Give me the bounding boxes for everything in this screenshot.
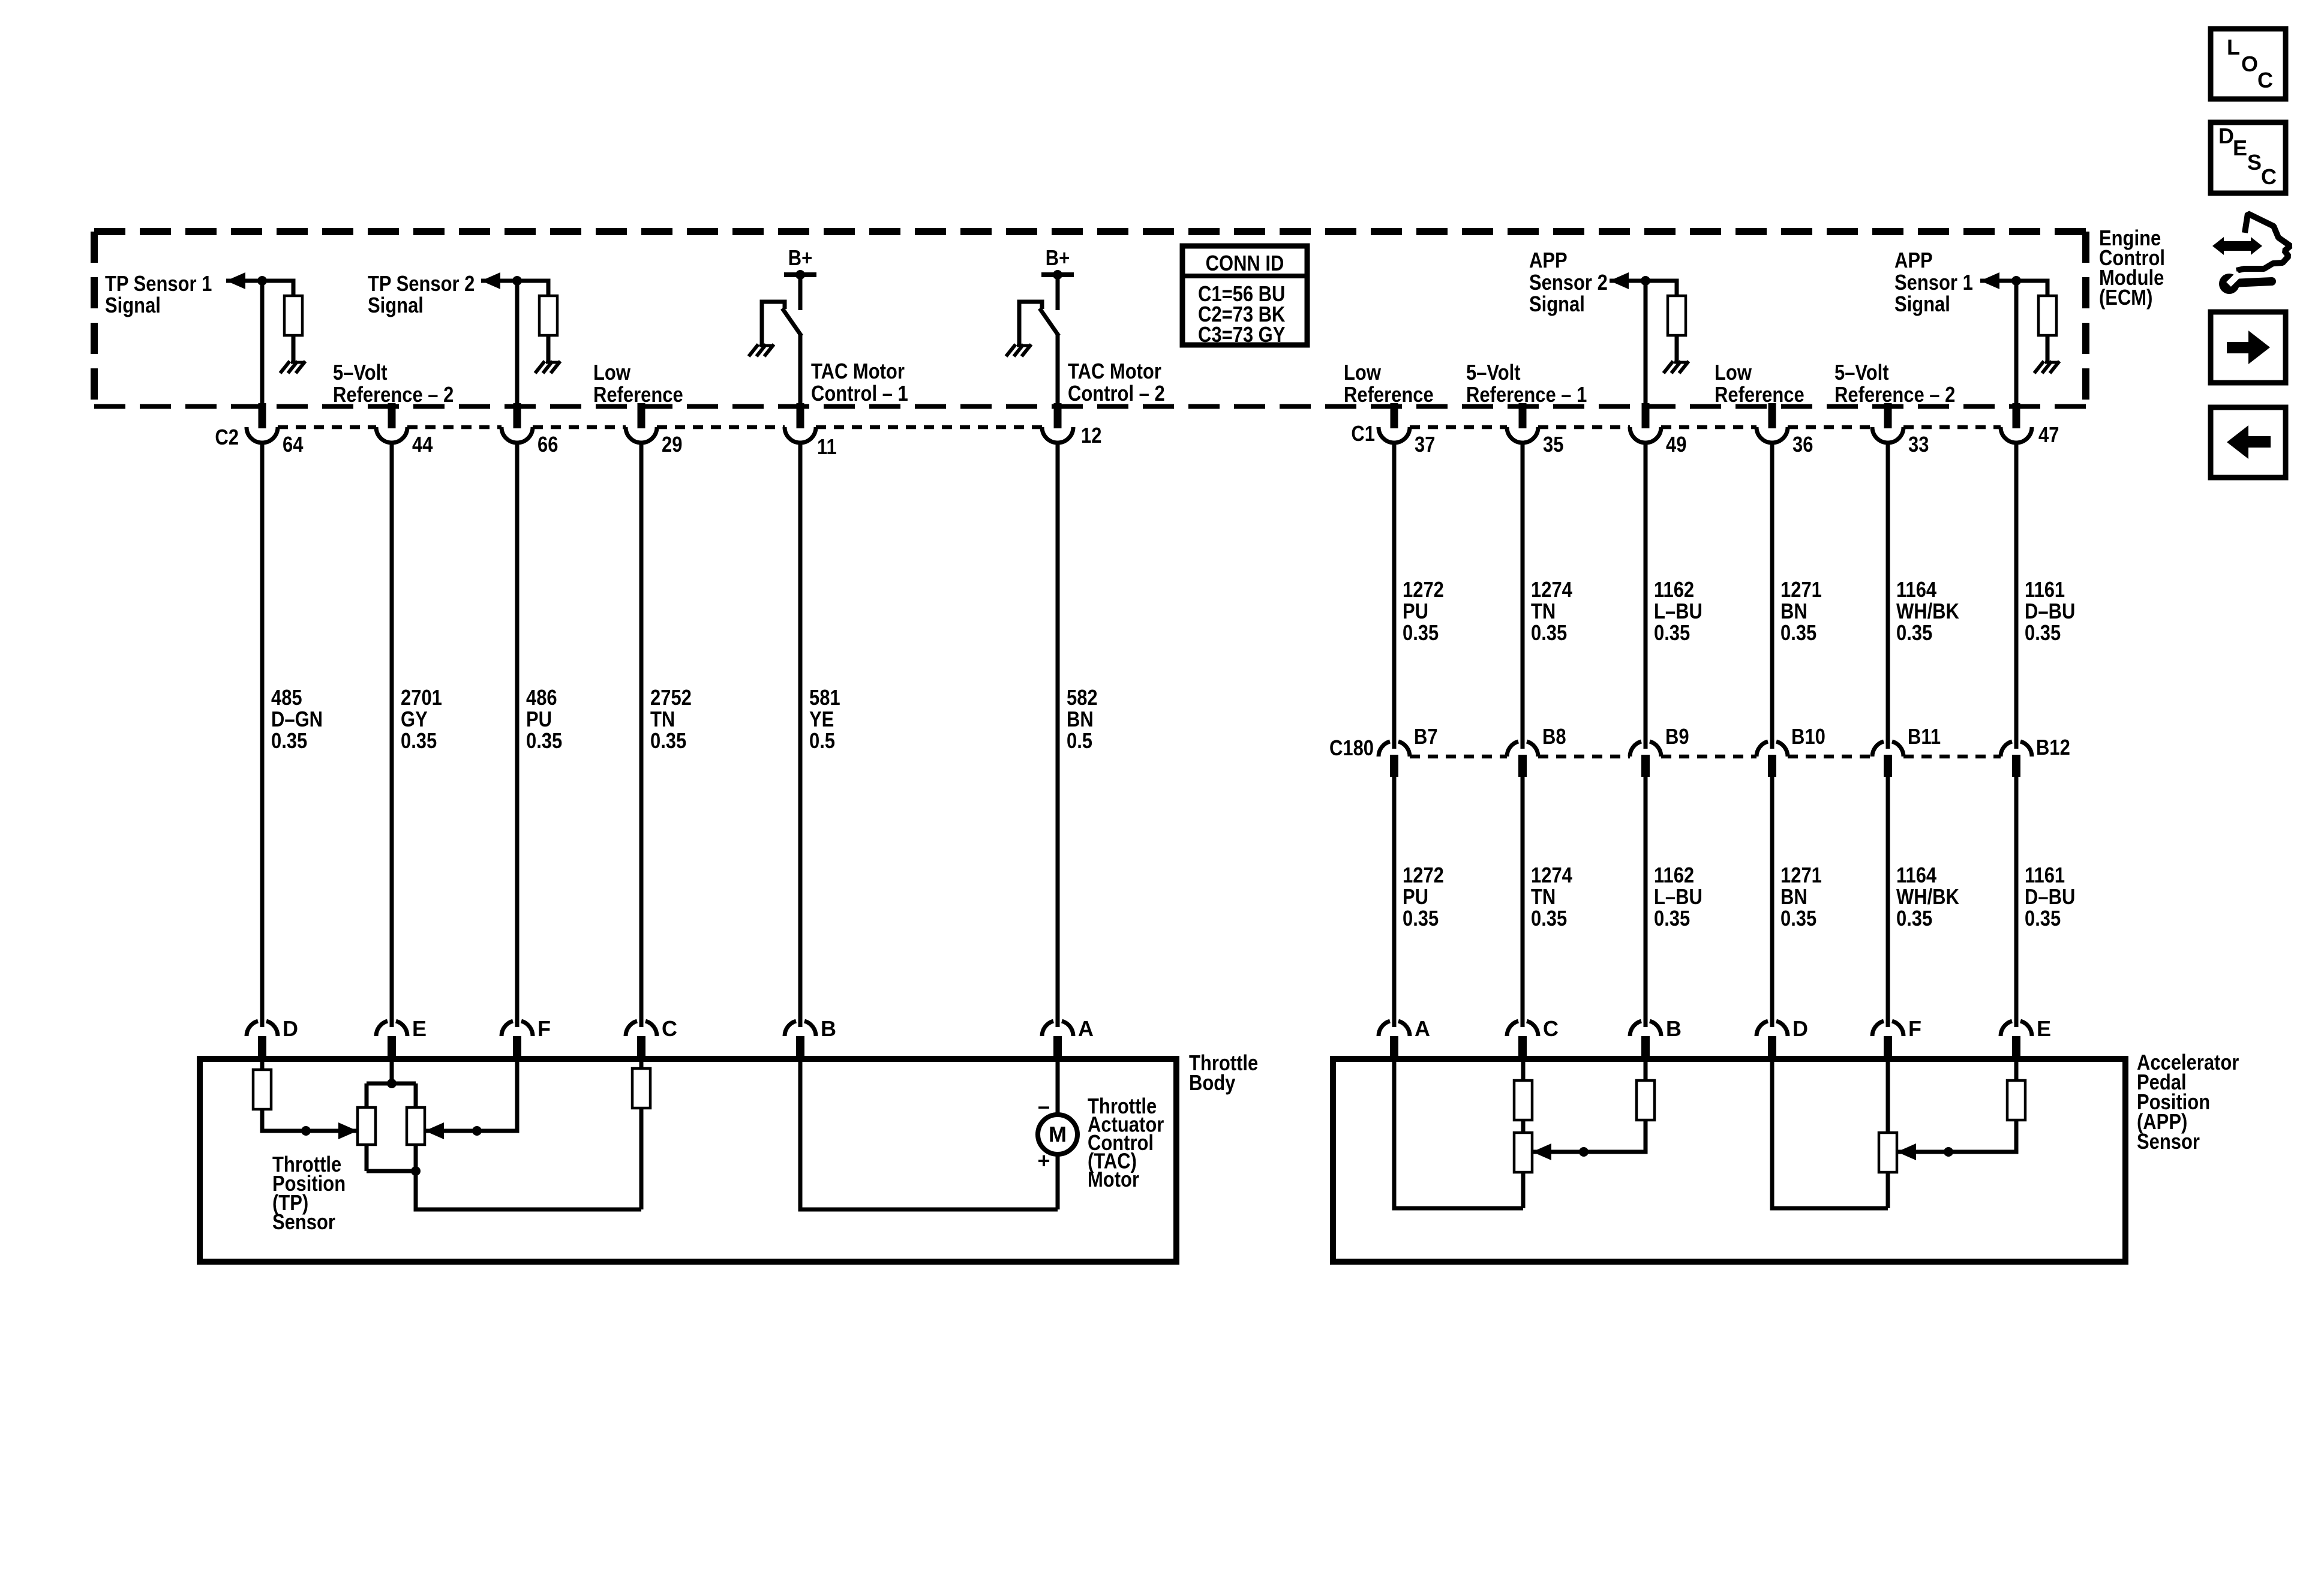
svg-text:0.35: 0.35 (1780, 906, 1816, 930)
svg-text:TP Sensor 2: TP Sensor 2 (368, 271, 475, 296)
svg-text:Sensor: Sensor (272, 1209, 335, 1234)
svg-text:B8: B8 (1542, 724, 1566, 749)
svg-text:Signal: Signal (105, 293, 161, 317)
svg-text:1161: 1161 (2025, 863, 2065, 887)
svg-text:33: 33 (1908, 432, 1929, 457)
svg-text:C: C (662, 1016, 677, 1041)
svg-text:Sensor 2: Sensor 2 (1529, 270, 1608, 295)
svg-text:1271: 1271 (1780, 863, 1822, 887)
svg-text:0.5: 0.5 (809, 728, 835, 753)
svg-text:–: – (1038, 1094, 1050, 1118)
svg-text:35: 35 (1543, 432, 1563, 457)
svg-text:Sensor: Sensor (2137, 1129, 2200, 1154)
svg-text:+: + (1037, 1148, 1050, 1173)
svg-text:581: 581 (809, 685, 840, 710)
svg-text:1272: 1272 (1403, 863, 1444, 887)
svg-text:1162: 1162 (1654, 577, 1694, 602)
svg-text:485: 485 (271, 685, 302, 710)
svg-text:O: O (2241, 52, 2258, 76)
svg-text:GY: GY (401, 707, 428, 731)
svg-text:B: B (821, 1016, 836, 1041)
svg-text:F: F (538, 1016, 551, 1041)
svg-text:Signal: Signal (368, 293, 424, 317)
svg-text:0.35: 0.35 (1531, 620, 1567, 645)
svg-text:0.35: 0.35 (650, 728, 686, 753)
svg-text:B12: B12 (2036, 735, 2070, 760)
svg-text:C1: C1 (1351, 421, 1375, 446)
svg-text:1161: 1161 (2025, 577, 2065, 602)
svg-text:5–Volt: 5–Volt (1466, 360, 1521, 385)
svg-text:Reference: Reference (1344, 382, 1434, 407)
svg-text:L–BU: L–BU (1654, 884, 1703, 909)
svg-text:2701: 2701 (401, 685, 442, 710)
svg-text:Motor: Motor (1088, 1167, 1139, 1191)
svg-text:D–BU: D–BU (2025, 599, 2075, 623)
svg-text:M: M (1049, 1122, 1067, 1146)
svg-text:5–Volt: 5–Volt (1834, 360, 1889, 385)
svg-text:0.35: 0.35 (271, 728, 307, 753)
svg-text:0.35: 0.35 (526, 728, 562, 753)
svg-text:0.35: 0.35 (1403, 620, 1439, 645)
svg-text:36: 36 (1792, 432, 1813, 457)
svg-text:Control – 2: Control – 2 (1068, 381, 1165, 406)
svg-text:Signal: Signal (1529, 292, 1585, 316)
svg-text:WH/BK: WH/BK (1896, 884, 1959, 909)
svg-text:D–GN: D–GN (271, 707, 323, 731)
svg-text:0.35: 0.35 (1531, 906, 1567, 930)
svg-text:WH/BK: WH/BK (1896, 599, 1959, 623)
svg-text:1164: 1164 (1896, 863, 1936, 887)
svg-text:Low: Low (593, 360, 631, 385)
svg-text:TN: TN (1531, 884, 1556, 909)
svg-text:Reference – 2: Reference – 2 (333, 382, 454, 407)
svg-text:APP: APP (1894, 248, 1933, 272)
svg-text:37: 37 (1415, 432, 1435, 457)
svg-text:11: 11 (817, 434, 837, 459)
svg-text:12: 12 (1081, 423, 1101, 448)
svg-text:F: F (1908, 1016, 1921, 1041)
svg-text:Low: Low (1344, 360, 1382, 385)
svg-text:0.35: 0.35 (1403, 906, 1439, 930)
svg-text:E: E (2037, 1016, 2051, 1041)
svg-text:CONN ID: CONN ID (1206, 251, 1284, 275)
svg-text:64: 64 (283, 432, 303, 457)
svg-text:PU: PU (1403, 884, 1428, 909)
svg-text:A: A (1415, 1016, 1430, 1041)
svg-text:PU: PU (526, 707, 552, 731)
svg-text:BN: BN (1067, 707, 1094, 731)
svg-text:C: C (1543, 1016, 1559, 1041)
svg-text:PU: PU (1403, 599, 1428, 623)
svg-text:1271: 1271 (1780, 577, 1822, 602)
svg-text:TAC Motor: TAC Motor (811, 359, 905, 383)
svg-text:0.35: 0.35 (2025, 620, 2061, 645)
svg-text:B: B (1666, 1016, 1682, 1041)
svg-text:0.35: 0.35 (2025, 906, 2061, 930)
svg-text:Body: Body (1189, 1070, 1235, 1095)
svg-text:0.5: 0.5 (1067, 728, 1092, 753)
svg-text:D: D (283, 1016, 298, 1041)
svg-text:C180: C180 (1329, 736, 1374, 760)
svg-text:582: 582 (1067, 685, 1098, 710)
svg-text:Control – 1: Control – 1 (811, 381, 908, 406)
svg-text:29: 29 (662, 432, 682, 457)
svg-text:B+: B+ (1046, 245, 1070, 270)
svg-text:Reference: Reference (593, 382, 683, 407)
svg-text:1272: 1272 (1403, 577, 1444, 602)
svg-text:C: C (2261, 164, 2277, 189)
svg-text:B11: B11 (1908, 724, 1941, 749)
svg-text:44: 44 (412, 432, 433, 457)
svg-text:1274: 1274 (1531, 863, 1572, 887)
svg-text:C: C (2257, 68, 2273, 92)
svg-text:YE: YE (809, 707, 834, 731)
svg-text:B+: B+ (788, 245, 812, 270)
svg-text:B9: B9 (1665, 724, 1689, 749)
svg-text:D: D (2218, 124, 2234, 148)
svg-text:(ECM): (ECM) (2099, 285, 2152, 310)
svg-text:0.35: 0.35 (1780, 620, 1816, 645)
svg-text:APP: APP (1529, 248, 1568, 272)
svg-text:L: L (2227, 35, 2240, 59)
svg-text:Reference: Reference (1715, 382, 1804, 407)
svg-text:5–Volt: 5–Volt (333, 360, 388, 385)
svg-text:L–BU: L–BU (1654, 599, 1703, 623)
svg-text:0.35: 0.35 (1896, 906, 1932, 930)
svg-text:S: S (2247, 150, 2262, 175)
svg-text:47: 47 (2038, 422, 2059, 447)
svg-text:2752: 2752 (650, 685, 692, 710)
svg-text:D: D (1792, 1016, 1808, 1041)
svg-text:A: A (1078, 1016, 1094, 1041)
svg-text:1164: 1164 (1896, 577, 1936, 602)
svg-text:BN: BN (1780, 599, 1807, 623)
svg-text:49: 49 (1666, 432, 1686, 457)
svg-text:Low: Low (1715, 360, 1752, 385)
svg-text:TN: TN (650, 707, 675, 731)
svg-text:E: E (412, 1016, 427, 1041)
svg-text:Reference – 2: Reference – 2 (1834, 382, 1955, 407)
svg-text:1162: 1162 (1654, 863, 1694, 887)
svg-text:Sensor 1: Sensor 1 (1894, 270, 1973, 295)
svg-text:486: 486 (526, 685, 557, 710)
svg-text:BN: BN (1780, 884, 1807, 909)
svg-text:D–BU: D–BU (2025, 884, 2075, 909)
svg-text:Reference – 1: Reference – 1 (1466, 382, 1587, 407)
svg-text:Signal: Signal (1894, 292, 1950, 316)
svg-text:C3=73 GY: C3=73 GY (1198, 322, 1285, 347)
svg-text:E: E (2233, 136, 2247, 160)
svg-text:B7: B7 (1414, 724, 1438, 749)
svg-text:0.35: 0.35 (1654, 620, 1690, 645)
svg-text:0.35: 0.35 (1896, 620, 1932, 645)
svg-text:C2: C2 (215, 425, 239, 449)
svg-text:0.35: 0.35 (1654, 906, 1690, 930)
svg-text:TAC Motor: TAC Motor (1068, 359, 1161, 383)
svg-text:TP Sensor 1: TP Sensor 1 (105, 271, 212, 296)
svg-text:1274: 1274 (1531, 577, 1572, 602)
svg-text:0.35: 0.35 (401, 728, 437, 753)
svg-text:TN: TN (1531, 599, 1556, 623)
svg-text:66: 66 (538, 432, 558, 457)
svg-text:B10: B10 (1791, 724, 1825, 749)
